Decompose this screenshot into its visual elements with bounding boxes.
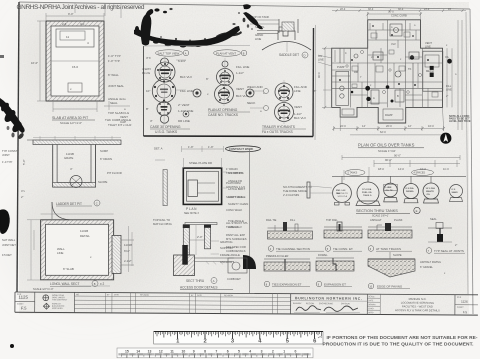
bolt dots col2 <box>218 70 231 101</box>
svg-text:F.5: F.5 <box>463 310 468 314</box>
svg-text:PLANK: PLANK <box>394 218 403 222</box>
svg-text:9'-0": 9'-0" <box>68 12 74 16</box>
svg-text:DET. A: DET. A <box>154 147 163 151</box>
svg-text:BLK VLV: BLK VLV <box>180 75 192 79</box>
svg-text:15-6: 15-6 <box>72 65 78 69</box>
svg-text:SEAL: SEAL <box>430 217 437 221</box>
center notes column <box>226 167 248 253</box>
svg-text:WELD AND: WELD AND <box>247 85 264 89</box>
access door captions <box>180 278 233 290</box>
access door right leaders <box>222 171 249 206</box>
svg-text:ASPHALT: ASPHALT <box>370 218 382 222</box>
svg-text:SEE NOTE 3: SEE NOTE 3 <box>184 212 199 215</box>
ruler top band (inches) <box>117 332 323 358</box>
svg-text:TIES EXPANSION ET: TIES EXPANSION ET <box>272 283 302 287</box>
svg-text:MTL SURFACES: MTL SURFACES <box>226 237 247 241</box>
svg-text:TK: TK <box>408 67 412 71</box>
svg-text:PLAN OF OILS OVER TANKS: PLAN OF OILS OVER TANKS <box>358 143 415 148</box>
north arrow <box>440 133 451 144</box>
svg-text:DIA: DIA <box>336 192 340 195</box>
svg-text:LADDER DET PIT: LADDER DET PIT <box>56 202 82 206</box>
svg-text:12': 12' <box>408 124 412 128</box>
svg-text:SEE SPEC FOR: SEE SPEC FOR <box>226 245 246 249</box>
caption col1 <box>150 125 190 134</box>
svg-text:PAINT ALL EXP: PAINT ALL EXP <box>226 233 245 237</box>
svg-text:2": 2" <box>455 244 457 247</box>
scan mottling <box>15 15 475 300</box>
svg-text:LINE: LINE <box>425 45 431 49</box>
svg-text:C: C <box>96 202 98 206</box>
svg-text:SLAB AT AREA 30 PIT: SLAB AT AREA 30 PIT <box>52 116 89 120</box>
region B box borders <box>144 25 316 140</box>
svg-text:SCALE 1/2"=1'-0": SCALE 1/2"=1'-0" <box>33 287 54 291</box>
svg-text:VENT: VENT <box>294 105 302 109</box>
svg-text:NECK: NECK <box>247 101 255 105</box>
svg-text:LUBE: LUBE <box>386 187 392 189</box>
svg-text:4": 4" <box>70 167 73 171</box>
svg-text:TYP SEAL AT JOINTS: TYP SEAL AT JOINTS <box>434 249 464 253</box>
svg-text:F.5 DET: F.5 DET <box>2 253 12 257</box>
flange circles column 2 <box>215 58 234 106</box>
svg-text:GRATING 1-1/4: GRATING 1-1/4 <box>226 185 245 189</box>
svg-text:E: E <box>416 209 418 213</box>
dimension slash ticks below plan <box>324 13 445 131</box>
svg-text:THE DOME SPACE: THE DOME SPACE <box>283 189 307 193</box>
bolt dots col1 <box>154 63 174 114</box>
svg-text:2: 2 <box>204 339 207 345</box>
svg-text:TOP RAIL: TOP RAIL <box>326 218 338 222</box>
dark centers col1 <box>160 69 170 111</box>
svg-text:5'-0": 5'-0" <box>22 159 26 165</box>
svg-text:THIS CONTRACT: THIS CONTRACT <box>52 298 68 301</box>
svg-text:PLATFORM: PLATFORM <box>226 181 241 185</box>
svg-text:10": 10" <box>146 89 150 93</box>
svg-text:6'11": 6'11" <box>124 249 130 253</box>
region C dome (tank top saddle) <box>257 27 311 52</box>
svg-text:DATE: DATE <box>368 299 374 302</box>
svg-text:CURB DETAILS: CURB DETAILS <box>226 249 246 253</box>
svg-text:70000 G: 70000 G <box>363 195 372 197</box>
svg-text:11: 11 <box>66 35 69 39</box>
svg-text:TIE CONN. ET.: TIE CONN. ET. <box>333 247 354 251</box>
svg-text:DIESEL: DIESEL <box>406 191 415 193</box>
tank car circle (leftmost) <box>307 182 351 205</box>
big plan inner rooms and equipment <box>336 24 443 120</box>
svg-text:16'-0: 16'-0 <box>428 124 434 128</box>
dimension numbers around plan <box>317 10 457 135</box>
paving detail row1 item3 <box>368 218 412 238</box>
svg-text:SCALE: SCALE <box>368 295 375 298</box>
access door section bars <box>183 223 217 256</box>
region C top section <box>250 19 298 33</box>
top long dimension line <box>332 9 466 12</box>
svg-text:1: 1 <box>283 350 285 354</box>
svg-text:TRAILER HYDRANTS: TRAILER HYDRANTS <box>262 125 296 129</box>
svg-text:22'-0: 22'-0 <box>340 124 346 128</box>
svg-text:STEEL PLATE DR: STEEL PLATE DR <box>189 161 212 165</box>
ruler bottom cm band <box>117 348 313 358</box>
svg-text:BLK VLV: BLK VLV <box>236 94 248 98</box>
svg-text:FILL LINE: FILL LINE <box>236 65 249 69</box>
svg-text:SPOUT A: SPOUT A <box>338 195 348 198</box>
tank plan dimension lines <box>37 13 130 112</box>
box B faint top edge <box>144 45 251 48</box>
small mark left border top <box>0 55 4 58</box>
svg-text:1131B: 1131B <box>80 229 88 233</box>
access door section labels <box>153 218 244 264</box>
svg-text:6: 6 <box>227 350 229 354</box>
title block <box>15 292 478 315</box>
svg-text:ALL STRUCT STL: ALL STRUCT STL <box>226 221 248 225</box>
svg-text:1-1/2": 1-1/2" <box>236 71 244 75</box>
svg-text:1" DRAIN: 1" DRAIN <box>226 167 238 171</box>
svg-text:SADDLE DET: SADDLE DET <box>279 53 299 57</box>
flange circles column 1 <box>152 56 175 126</box>
svg-text:3"X: 3"X <box>146 56 151 60</box>
revision table <box>74 292 290 314</box>
right lower leader labels <box>420 244 457 275</box>
svg-text:90'-0": 90'-0" <box>385 158 392 162</box>
svg-text:4 SPACES: 4 SPACES <box>414 172 426 175</box>
pit section ticks above slab <box>33 136 121 140</box>
big plan view: outline <box>332 20 443 123</box>
svg-text:14: 14 <box>136 350 140 354</box>
svg-text:14': 14' <box>362 124 366 128</box>
svg-text:CASE NO. TRACKS: CASE NO. TRACKS <box>208 113 239 117</box>
svg-text:13: 13 <box>148 350 152 354</box>
svg-text:3-0: 3-0 <box>80 22 85 26</box>
svg-text:LONGL WALL SECT: LONGL WALL SECT <box>50 282 79 286</box>
svg-text:30'-0: 30'-0 <box>368 8 374 11</box>
paving detail row2 item1 <box>264 254 310 271</box>
svg-text:DETAIL: DETAIL <box>80 234 90 238</box>
big plan black dots <box>351 55 452 102</box>
svg-text:SALT TOP VIEW: SALT TOP VIEW <box>158 52 180 56</box>
svg-text:NO ATTACHMENTS TO: NO ATTACHMENTS TO <box>283 185 312 189</box>
svg-text:20'-0: 20'-0 <box>340 8 346 11</box>
svg-text:B: B <box>94 282 96 286</box>
svg-text:FRAME ANGLE: FRAME ANGLE <box>220 253 240 257</box>
left margin diagonal streak <box>0 98 25 140</box>
labels above plan <box>318 14 452 92</box>
paving detail row1 item1 <box>266 218 313 239</box>
caption col2 <box>208 108 250 117</box>
svg-text:PLAN AT OPENING: PLAN AT OPENING <box>208 108 238 112</box>
paving detail row2 item2 <box>316 253 354 271</box>
svg-text:6-3/4": 6-3/4" <box>178 59 186 63</box>
svg-text:JOINT: JOINT <box>2 153 10 157</box>
svg-text:15: 15 <box>125 350 129 354</box>
svg-text:CASE 30 OPENING: CASE 30 OPENING <box>150 125 181 129</box>
big plan extra density marks <box>332 23 442 107</box>
svg-text:12'-0 DIA: 12'-0 DIA <box>362 188 372 191</box>
svg-text:VENT: VENT <box>120 115 128 119</box>
svg-text:EDGE OF PAVING: EDGE OF PAVING <box>377 285 403 289</box>
left margin blob lower <box>0 209 10 234</box>
svg-text:9: 9 <box>193 350 195 354</box>
labels around col1 <box>142 56 193 123</box>
svg-text:1-1/2" LINE: 1-1/2" LINE <box>178 109 193 113</box>
svg-text:FA x OUTS TRACKS: FA x OUTS TRACKS <box>262 130 294 134</box>
svg-text:LINE: LINE <box>255 37 261 41</box>
svg-text:1'-0" TYP: 1'-0" TYP <box>108 54 121 58</box>
svg-text:DRAWN: DRAWN <box>368 303 376 306</box>
small col <box>367 294 380 314</box>
symbols box <box>43 292 75 312</box>
svg-text:ACCESS FLY & TANK CAR DETAILS: ACCESS FLY & TANK CAR DETAILS <box>395 308 440 312</box>
tank plan leader labels right <box>31 12 132 127</box>
svg-text:4: 4 <box>249 350 251 354</box>
labels col3 <box>247 85 308 120</box>
svg-text:LEVEL AND TRUE: LEVEL AND TRUE <box>449 120 471 123</box>
ruler inch numbers <box>176 339 317 345</box>
paving detail row1 item2 <box>324 218 362 238</box>
svg-text:BURLINGTON NORTHERN INC.: BURLINGTON NORTHERN INC. <box>295 296 362 300</box>
svg-text:SHT WALL: SHT WALL <box>2 238 16 242</box>
sheet border right <box>470 9 473 314</box>
svg-text:TO SUMP PIT: TO SUMP PIT <box>226 171 243 175</box>
access door footing pier <box>174 245 234 276</box>
svg-text:DATE: DATE <box>114 293 120 296</box>
svg-text:2" VENT: 2" VENT <box>178 103 190 107</box>
svg-text:8": 8" <box>146 107 149 111</box>
MANDAN block <box>395 294 455 315</box>
leaders from plan to left labels <box>318 55 332 90</box>
flange circles column 3 <box>275 80 294 124</box>
svg-text:8'-0 DIA: 8'-0 DIA <box>406 187 414 190</box>
svg-text:SAFETY CHAIN: SAFETY CHAIN <box>228 202 248 206</box>
svg-text:REVISION: REVISION <box>140 295 150 297</box>
svg-text:D: D <box>304 54 306 58</box>
paving detail row1 item4 (seal at joints) <box>428 217 452 242</box>
svg-text:CURB DET: CURB DET <box>227 277 241 281</box>
pencil marks near ruler end <box>318 337 322 338</box>
oval labels above grade line <box>345 170 434 176</box>
svg-text:GRATE: GRATE <box>64 156 74 160</box>
svg-text:AT TANK TRACKS: AT TANK TRACKS <box>376 247 401 251</box>
svg-text:PRODUCTION IT IS DUE TO THE QU: PRODUCTION IT IS DUE TO THE QUALITY OF T… <box>323 342 474 348</box>
pit section labels <box>22 149 122 184</box>
svg-text:SLOPE: SLOPE <box>98 180 107 184</box>
grade line above tanks <box>332 176 466 184</box>
svg-text:WASTE: WASTE <box>426 190 434 193</box>
svg-text:CONC CURB: CONC CURB <box>391 14 407 18</box>
svg-text:16'-0: 16'-0 <box>420 167 426 171</box>
svg-text:A: A <box>373 96 375 100</box>
svg-text:TO BE GALV: TO BE GALV <box>226 225 242 229</box>
svg-text:14'-0: 14'-0 <box>398 167 404 171</box>
curb detail with dark blob <box>227 255 256 281</box>
caption col3 <box>262 125 306 134</box>
svg-text:11: 11 <box>170 350 174 354</box>
svg-text:18'-0: 18'-0 <box>378 167 384 171</box>
svg-text:ACCESS DOOR DETAILS: ACCESS DOOR DETAILS <box>180 286 218 290</box>
svg-text:SLOPE: SLOPE <box>393 253 402 257</box>
90ft dimension line <box>342 155 460 160</box>
svg-text:20'-0: 20'-0 <box>386 124 392 128</box>
svg-text:NORTHERN: NORTHERN <box>52 308 63 310</box>
tanks row: section thru tanks <box>356 182 463 206</box>
svg-text:A: A <box>213 279 215 283</box>
svg-text:SAND: SAND <box>452 191 459 194</box>
svg-text:SAFETY RAIL: SAFETY RAIL <box>226 195 244 199</box>
access door left bar <box>163 170 167 206</box>
top black smudge (scan artifact) <box>134 4 263 47</box>
svg-text:6": 6" <box>206 77 209 81</box>
svg-text:RAIL TIE: RAIL TIE <box>266 218 277 222</box>
big plan inner partitions <box>332 20 443 108</box>
svg-text:3: 3 <box>261 350 263 354</box>
svg-text:19': 19' <box>448 8 452 11</box>
svg-text:PUMP: PUMP <box>337 65 345 69</box>
svg-text:IF PORTIONS OF THIS DOCUMENT A: IF PORTIONS OF THIS DOCUMENT ARE NOT SUI… <box>327 335 478 341</box>
long wall dims <box>27 214 114 286</box>
svg-text:OIL TK: OIL TK <box>386 190 394 192</box>
svg-text:FACILITIES - WEST END: FACILITIES - WEST END <box>402 304 433 308</box>
svg-text:1125: 1125 <box>18 295 28 300</box>
top-left tank plan outer wall <box>46 21 104 101</box>
svg-text:FILE: FILE <box>457 297 462 299</box>
long wall plan lower-left <box>41 202 134 280</box>
partition line center <box>248 149 250 293</box>
svg-text:SHEET: SHEET <box>457 307 464 309</box>
svg-text:6" DRAIN: 6" DRAIN <box>100 157 112 161</box>
svg-text:TIE CHANNEL SECTION: TIE CHANNEL SECTION <box>276 247 310 251</box>
long wall inner labels <box>57 229 132 271</box>
title: PLAN OF OILS OVER TANKS <box>358 143 424 154</box>
caption oval col2 top <box>214 50 247 56</box>
sheet border top <box>19 2 470 9</box>
svg-text:JOINT SEAL: JOINT SEAL <box>108 84 124 88</box>
svg-text:2-6: 2-6 <box>62 22 67 26</box>
svg-text:SUMP: SUMP <box>100 149 108 153</box>
label under tank plan <box>52 116 95 125</box>
svg-text:OIL: OIL <box>445 56 450 59</box>
svg-text:16'-0": 16'-0" <box>31 61 38 65</box>
long dimension line above tanks <box>344 160 460 180</box>
access door dims above <box>155 146 223 168</box>
dark centers col2 col3 <box>220 75 289 115</box>
strip borders <box>15 292 478 315</box>
svg-text:SECT THRU: SECT THRU <box>186 279 205 283</box>
svg-text:6" SLAB: 6" SLAB <box>63 267 74 271</box>
svg-text:1'-0" TYP: 1'-0" TYP <box>108 59 120 63</box>
svg-text:SECTION THRU TANKS: SECTION THRU TANKS <box>356 209 398 213</box>
svg-text:FILL LINE: FILL LINE <box>180 89 193 93</box>
svg-text:LINE: LINE <box>446 88 452 92</box>
tank plan small marks <box>62 22 89 91</box>
PLAN caption <box>184 207 199 215</box>
svg-text:CONC WALK: CONC WALK <box>226 208 242 212</box>
big plan dimension lines below <box>322 12 462 135</box>
bolt dots col3 <box>278 85 290 119</box>
svg-text:ASPHALT PAVING: ASPHALT PAVING <box>420 261 441 264</box>
svg-text:DR LINE: DR LINE <box>178 119 190 123</box>
svg-text:PLAN AT VENT: PLAN AT VENT <box>216 52 236 56</box>
svg-text:5 TANKS: 5 TANKS <box>348 172 358 175</box>
svg-text:1131B: 1131B <box>124 243 132 247</box>
svg-text:SCALE 1"=10': SCALE 1"=10' <box>378 149 396 153</box>
svg-text:3": 3" <box>150 119 153 123</box>
paving detail row2 item3 (edge of paving wedge) <box>368 252 415 277</box>
FILE boxes right <box>455 297 478 315</box>
tanks row labels <box>336 187 458 197</box>
svg-text:BLK VLV: BLK VLV <box>294 116 306 120</box>
svg-text:40'-0: 40'-0 <box>317 72 321 78</box>
svg-text:1'-9": 1'-9" <box>188 145 194 149</box>
svg-text:VENT: VENT <box>425 41 432 45</box>
svg-text:1126: 1126 <box>461 300 468 304</box>
svg-text:12: 12 <box>159 350 163 354</box>
svg-text:VENT: VENT <box>236 87 244 91</box>
svg-text:P L A N: P L A N <box>186 207 197 211</box>
svg-text:10: 10 <box>182 350 186 354</box>
svg-text:11'-0: 11'-0 <box>443 167 449 171</box>
svg-text:PREMOLD FILLER: PREMOLD FILLER <box>266 254 288 258</box>
long wall caption <box>33 281 104 292</box>
small black dot bottom-left <box>10 344 14 348</box>
svg-text:FILL: FILL <box>290 218 296 222</box>
svg-text:B: B <box>397 94 399 98</box>
BN block <box>291 294 368 315</box>
svg-text:LINE: LINE <box>318 58 324 62</box>
svg-text:CHKD: CHKD <box>368 308 374 310</box>
svg-text:10'-0 DIA: 10'-0 DIA <box>426 187 436 190</box>
svg-text:6" WALL: 6" WALL <box>108 73 119 77</box>
svg-text:ENGINEERING: ENGINEERING <box>319 303 333 305</box>
ruler stamp area <box>323 335 478 348</box>
mid-left pit section: top slab <box>27 140 121 188</box>
svg-text:APPD: APPD <box>368 311 374 314</box>
pit caption <box>56 200 100 206</box>
svg-text:SCALE 1/8"=1': SCALE 1/8"=1' <box>372 215 389 218</box>
svg-text:2": 2" <box>21 195 23 199</box>
svg-text:2: 2 <box>272 350 274 354</box>
svg-text:2'-0 CLR MIN: 2'-0 CLR MIN <box>283 193 299 197</box>
extra region A leaders <box>108 59 124 88</box>
signatures <box>296 306 321 311</box>
svg-text:62'-0: 62'-0 <box>380 130 386 134</box>
svg-text:0: 0 <box>295 350 297 354</box>
svg-text:30'-0: 30'-0 <box>398 8 404 11</box>
big plan tiny labels inside <box>337 24 434 117</box>
labels col2 <box>206 65 249 98</box>
svg-text:6": 6" <box>314 90 316 93</box>
tanks row caption <box>356 207 420 217</box>
svg-text:CAP: CAP <box>120 120 126 124</box>
right margin notes block <box>449 115 471 123</box>
sheet border left <box>17 2 19 292</box>
region C caption <box>279 52 308 58</box>
svg-text:DOWEL: DOWEL <box>318 253 328 257</box>
svg-text:VLV: VLV <box>391 42 396 46</box>
svg-text:2'-0": 2'-0" <box>197 235 203 239</box>
svg-text:DIVISION: DIVISION <box>341 303 350 305</box>
svg-text:U.S.G. TANKS: U.S.G. TANKS <box>155 130 178 134</box>
svg-text:DATE: DATE <box>197 294 203 297</box>
svg-text:5: 5 <box>238 350 240 354</box>
svg-text:FUEL OIL: FUEL OIL <box>362 192 373 194</box>
svg-text:F.5: F.5 <box>21 306 27 311</box>
svg-text:LINE: LINE <box>294 89 301 93</box>
svg-text:MANDAN N.D.: MANDAN N.D. <box>409 297 427 301</box>
top border drop stubs <box>75 3 121 18</box>
svg-text:x 2: x 2 <box>100 282 104 286</box>
svg-text:REGION: REGION <box>306 303 314 305</box>
caption oval col1 top <box>156 50 189 56</box>
svg-text:RAMP: RAMP <box>385 113 393 117</box>
svg-text:LOCOMOTIVE SERVICING: LOCOMOTIVE SERVICING <box>401 301 434 305</box>
